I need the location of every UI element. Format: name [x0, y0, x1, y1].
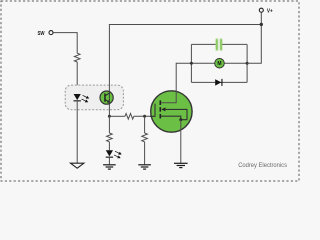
- opto phototransistor Q1: [100, 91, 113, 104]
- ground (open triangle) for opto LED: [71, 163, 84, 168]
- drain path: [161, 63, 191, 102]
- opto LED D1: [74, 94, 81, 101]
- node SW terminal: [38, 31, 54, 37]
- body path: [165, 109, 187, 119]
- wire SW to R1: [53, 33, 77, 54]
- wire R1 to opto LED: [76, 62, 78, 94]
- gate electrode: [150, 104, 155, 117]
- LED D2 emission arrows: [114, 151, 121, 158]
- optocoupler U1 box: [65, 85, 123, 110]
- wire LED D2 to ground: [108, 158, 110, 165]
- ground for LED D2: [103, 164, 116, 170]
- node V+ terminal: [259, 8, 273, 14]
- wire junction down to R3: [108, 116, 110, 133]
- body arrow: [161, 107, 165, 111]
- channel bars: [160, 100, 162, 118]
- wire R2 to gate junction: [134, 115, 155, 117]
- resistor R3 (LED series): [107, 133, 113, 142]
- transistor Q2 MOSFET body: [151, 91, 192, 132]
- node junction gate: [143, 115, 146, 118]
- node junction opto emitter: [108, 115, 111, 118]
- wire emitter junction to R2: [109, 115, 125, 117]
- node block left junction: [190, 62, 193, 65]
- ground for R4: [138, 164, 151, 170]
- motor branch wire: [191, 62, 247, 64]
- parallel block left edge: [190, 44, 192, 82]
- diode branch wire: [191, 81, 247, 83]
- resistor R2 (gate series): [125, 114, 134, 120]
- opto LED emission arrows: [82, 95, 89, 102]
- LED D2 indicator: [106, 150, 113, 157]
- wire source to ground: [180, 120, 182, 164]
- wire top rail V+: [109, 25, 261, 117]
- capacitor C1 branch wires: [191, 43, 215, 45]
- svg-text:SW: SW: [38, 31, 45, 37]
- node block right junction: [246, 62, 249, 65]
- resistor R1 (series with opto LED): [74, 53, 80, 62]
- svg-text:V+: V+: [267, 9, 273, 15]
- motor M1: [215, 58, 225, 68]
- wire R3 to LED D2: [108, 142, 110, 150]
- node junction V+ rail: [260, 23, 263, 26]
- svg-text:Codrey Electronics: Codrey Electronics: [238, 162, 287, 169]
- wire opto LED to ground: [76, 101, 78, 163]
- svg-text:M: M: [217, 61, 221, 67]
- resistor R4 (gate pulldown): [142, 133, 148, 142]
- node source-body junction: [179, 118, 182, 121]
- capacitor C1 plates: [216, 39, 222, 51]
- source path: [161, 116, 181, 120]
- wire R4 to ground: [144, 142, 146, 165]
- parallel block right edge: [246, 44, 248, 82]
- wire block right to V+ column: [247, 12, 261, 63]
- wire gate junction down to R4: [144, 116, 146, 133]
- ground for MOSFET source: [174, 163, 188, 169]
- diode D3 flyback: [215, 79, 222, 86]
